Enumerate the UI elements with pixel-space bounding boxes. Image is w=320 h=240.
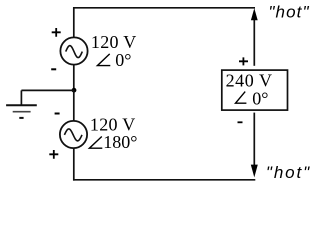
svg-text:"hot": "hot" [266,163,311,182]
V2 angle symbol [89,137,102,149]
ground bar 3 [19,117,23,119]
wire junction to V2 top [73,90,75,121]
svg-text:120 V: 120 V [91,32,137,52]
V2 sine wave [64,129,82,141]
box angle symbol [236,92,247,104]
AC source V1 (circle) [60,37,87,64]
wire neutral horizontal to ground [21,89,74,91]
node junction dot [72,88,77,93]
box 240V [222,70,288,110]
svg-text:"hot": "hot" [268,3,309,22]
arrow up head [251,8,258,20]
arrow down (to hot) shaft [253,113,255,165]
wire ground stub vertical [20,90,22,105]
wire top-left vertical [73,7,75,37]
wire V2 bottom to corner [73,148,75,181]
V2 minus sign [55,113,60,115]
svg-text:0°: 0° [115,50,131,70]
minus sign below box [238,121,243,123]
svg-text:0°: 0° [252,89,268,109]
arrow down head [251,165,258,178]
wire bottom horizontal [73,179,255,181]
plus sign above box [239,57,248,65]
svg-text:240 V: 240 V [226,71,273,91]
V2 plus sign [49,150,58,159]
ground bar 2 [13,111,31,113]
AC source V2 (circle) [60,121,87,148]
wire top horizontal [73,7,255,9]
ground bar 1 [6,104,37,106]
V1 minus sign [51,68,56,70]
arrow up (to hot) shaft [253,19,255,66]
V1 sine wave [66,46,83,58]
wire V1 bottom to junction [73,65,75,91]
V1 angle symbol [97,54,110,66]
V1 plus sign [52,28,61,37]
svg-text:180°: 180° [103,132,137,152]
